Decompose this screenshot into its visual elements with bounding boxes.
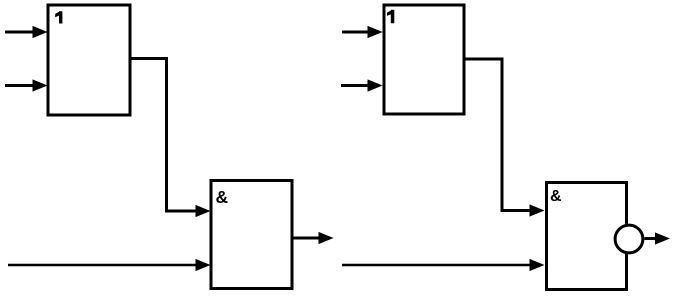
wire: input 2 of U2 (long line) with arrowhead	[8, 259, 211, 271]
wire: input 2 of U4 (long line) with arrowhead	[342, 259, 545, 271]
svg-text:&: &	[550, 188, 562, 205]
wire: input 2 of U1 with arrowhead	[5, 79, 48, 91]
wire: U4 output after bubble with arrowhead	[645, 232, 671, 244]
label "1" for U3	[387, 10, 394, 23]
wire: U1 output to U2 input (right, down, right) with arrowhead	[130, 59, 211, 218]
OR gate U3 (IEC box "1")	[384, 5, 464, 114]
wire: U3 output to U4 input (right, down, right) with arrowhead	[464, 59, 545, 217]
label "&" for U2	[216, 187, 229, 207]
wire: U2 output with arrowhead	[293, 232, 334, 244]
AND gate U4 (IEC box "&", NAND with bubble)	[547, 183, 627, 290]
inversion bubble on U4 output	[615, 225, 643, 253]
wire: input 1 of U3 with arrowhead	[342, 26, 383, 38]
OR gate U1 (IEC box "1")	[48, 5, 130, 115]
wire: input 2 of U3 with arrowhead	[341, 79, 383, 91]
wire: input 1 of U1 with arrowhead	[5, 26, 48, 38]
svg-text:&: &	[216, 187, 229, 207]
AND gate U2 (IEC box "&")	[211, 181, 292, 289]
label "&" for U4	[550, 188, 562, 205]
label "1" for U1	[55, 11, 62, 23]
